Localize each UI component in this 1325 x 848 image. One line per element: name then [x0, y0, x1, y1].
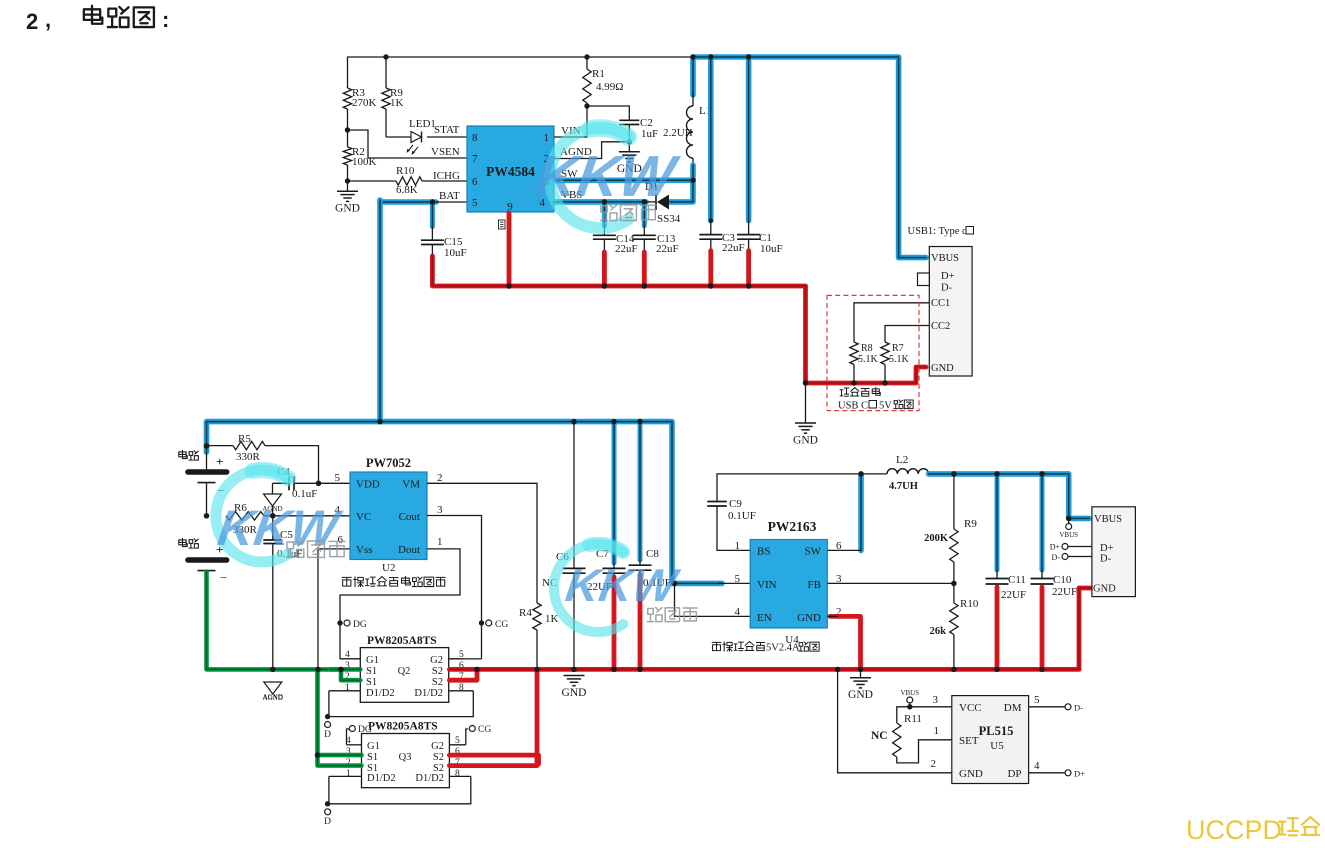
wire green into Q3 S1 pin3 — [318, 753, 362, 758]
node red C11 junction — [994, 667, 999, 672]
svg-text:GND: GND — [959, 768, 983, 780]
svg-text:VBUS: VBUS — [900, 689, 919, 697]
svg-text:SW: SW — [805, 546, 822, 558]
pin label EP glyph — [499, 220, 506, 229]
wire pin9 red drop — [507, 213, 512, 286]
ground AGND under C5 — [264, 682, 282, 694]
node bus R9 junction — [951, 471, 956, 476]
svg-text:5V2.4A: 5V2.4A — [766, 643, 800, 654]
node VC C5 junction — [270, 513, 275, 518]
capacitor C11 — [995, 474, 1000, 570]
svg-text:D+: D+ — [1074, 769, 1085, 779]
svg-text:D1/D2: D1/D2 — [366, 688, 395, 699]
LED LED1 — [411, 132, 422, 143]
svg-text:EN: EN — [757, 612, 772, 624]
svg-text:8: 8 — [472, 132, 478, 144]
svg-text:DM: DM — [1004, 702, 1022, 714]
svg-text:KKW: KKW — [214, 500, 345, 556]
node red R8 junction — [851, 380, 856, 385]
svg-text:1: 1 — [437, 536, 443, 548]
node red R7 junction — [882, 380, 887, 385]
wire green battery negative — [207, 572, 361, 681]
resistor R9 — [383, 54, 388, 59]
node red C10 junction — [1039, 667, 1044, 672]
svg-text:CG: CG — [478, 725, 491, 735]
node red C6 junction — [571, 667, 576, 672]
capacitor C1 — [746, 57, 752, 221]
capacitor C9 — [717, 506, 750, 550]
wire U4 GND red — [830, 616, 861, 669]
ground GND under USB1 — [805, 383, 807, 423]
label two-cell protection circuit — [342, 577, 351, 586]
ground GND under R2 — [347, 181, 349, 191]
battery BT2 — [179, 538, 187, 546]
svg-text:26k: 26k — [930, 626, 947, 637]
svg-text:10uF: 10uF — [444, 247, 467, 259]
svg-text:1: 1 — [544, 132, 550, 144]
svg-text:D+: D+ — [1050, 543, 1061, 552]
svg-text:VCC: VCC — [959, 702, 982, 714]
svg-text:Vss: Vss — [356, 544, 373, 556]
ground AGND near C4 — [272, 483, 274, 494]
svg-text:PW8205A8TS: PW8205A8TS — [367, 635, 437, 647]
node red U4 GND junction — [858, 667, 863, 672]
svg-text:D+: D+ — [941, 271, 955, 282]
node R3 R2 junction — [345, 127, 350, 132]
svg-text:GND: GND — [562, 687, 587, 699]
pin stubs Q3 — [347, 744, 362, 746]
transistor Q2 PW8205A8TS body — [360, 648, 448, 703]
wire VIN blue into U4 — [718, 582, 750, 584]
wire STAT row — [386, 136, 411, 138]
node VDD C4 junction — [316, 481, 321, 486]
svg-text:VBUS: VBUS — [1059, 531, 1078, 539]
wire green into S1 pin3 — [330, 667, 360, 672]
svg-text:2: 2 — [26, 9, 38, 34]
node DG Q3 — [347, 729, 350, 745]
node R2 ICHG junction — [345, 178, 350, 183]
svg-text:STAT: STAT — [434, 124, 460, 136]
transistor Q3 PW8205A8TS body — [362, 734, 450, 788]
wire BAT battery drop blue — [377, 200, 383, 422]
svg-text:R10: R10 — [960, 598, 979, 610]
svg-text:D: D — [324, 817, 331, 827]
watermark swirl arc — [554, 544, 623, 632]
resistor R10 26k — [953, 583, 955, 603]
svg-text:4.99Ω: 4.99Ω — [596, 81, 623, 93]
svg-text:D1/D2: D1/D2 — [414, 688, 443, 699]
node VBUS PL515 — [907, 697, 913, 703]
svg-text:Cout: Cout — [399, 511, 420, 523]
capacitor C8 — [638, 422, 643, 560]
watermark gray text — [601, 205, 617, 221]
resistor R5 — [207, 445, 234, 447]
svg-text:3: 3 — [933, 694, 939, 706]
svg-text:22UF: 22UF — [1001, 589, 1026, 601]
wire VDD link — [319, 482, 351, 484]
svg-text:L2: L2 — [896, 454, 908, 466]
node VIN EN junction — [672, 581, 677, 586]
resistor R4 — [533, 603, 541, 630]
svg-text:2.2UH: 2.2UH — [663, 127, 693, 139]
svg-text:BS: BS — [757, 546, 770, 558]
label buck circuit caption — [712, 642, 721, 650]
svg-text:22uF: 22uF — [656, 243, 679, 255]
svg-text:G2: G2 — [430, 655, 443, 666]
node green jog junction — [338, 667, 343, 672]
svg-text:6.8K: 6.8K — [396, 184, 418, 196]
svg-text:R9: R9 — [964, 518, 977, 530]
wire SW row blue — [554, 178, 693, 184]
op-amp U2 PW7052 chip body — [350, 472, 427, 560]
svg-text:NC: NC — [871, 730, 888, 742]
svg-text:−: − — [220, 570, 227, 585]
svg-text:3: 3 — [437, 504, 443, 516]
svg-text:GND: GND — [1093, 584, 1116, 595]
node DG Q2 — [337, 620, 342, 625]
svg-text:C8: C8 — [646, 548, 659, 560]
resistor R2 — [347, 130, 349, 147]
svg-text:4: 4 — [735, 606, 741, 618]
capacitor C6 — [573, 422, 575, 569]
capacitor C2 — [587, 106, 629, 120]
svg-text:CG: CG — [495, 620, 508, 630]
svg-text:R4: R4 — [519, 607, 532, 619]
wire CC1 link — [854, 303, 929, 342]
node Q3 drain D — [325, 801, 330, 806]
svg-text:ICHG: ICHG — [433, 170, 460, 182]
wire main red bus upper — [432, 256, 926, 383]
resistor R7 — [881, 342, 889, 365]
inductor L1 — [690, 57, 696, 95]
svg-text:330R: 330R — [236, 451, 261, 463]
svg-text:KKW: KKW — [563, 559, 683, 611]
svg-text:6: 6 — [338, 534, 344, 546]
battery BT1 — [179, 450, 187, 458]
op-amp U5 PL515 body — [952, 696, 1029, 784]
wire 5V output bus blue — [929, 474, 1089, 519]
node bus VBUS corner — [1066, 516, 1071, 521]
node red bus C14 junction — [602, 283, 607, 288]
node green C5 junction — [270, 667, 275, 672]
svg-text:D1/D2: D1/D2 — [415, 773, 444, 784]
svg-text:VBUS: VBUS — [1094, 514, 1122, 525]
svg-text:G1: G1 — [367, 741, 380, 752]
svg-text:1K: 1K — [545, 613, 559, 625]
svg-text:U5: U5 — [990, 740, 1004, 752]
svg-text:GND: GND — [931, 363, 954, 374]
wire VCC link — [910, 706, 952, 708]
wire red drop to Q3 — [449, 669, 537, 765]
node R1 VIN junction — [584, 103, 589, 108]
svg-text:PW2163: PW2163 — [768, 519, 817, 534]
svg-text:S1: S1 — [366, 677, 377, 688]
node red jog junction — [474, 667, 479, 672]
node green Q3 junction — [315, 752, 320, 757]
resistor R11 — [897, 707, 910, 723]
svg-text:22uF: 22uF — [722, 242, 745, 254]
svg-text:0.1uF: 0.1uF — [292, 488, 317, 500]
capacitor C5 — [272, 516, 274, 540]
connector USB1 shell tab — [918, 273, 930, 286]
dashed communication resistor box — [827, 295, 919, 410]
capacitor C14 — [602, 202, 607, 226]
node top bus L1 junction — [690, 54, 695, 59]
svg-text:GND: GND — [797, 612, 821, 624]
wire Q3 drain loop — [329, 776, 471, 803]
wire FB link — [827, 582, 954, 584]
svg-text:SS34: SS34 — [657, 213, 681, 225]
resistor R10 — [348, 180, 397, 182]
svg-text:GND: GND — [335, 203, 360, 215]
wire Cout to CG — [427, 516, 482, 624]
node VBS C13 junction — [642, 199, 647, 204]
svg-text:D+: D+ — [1100, 543, 1114, 554]
svg-text:200K: 200K — [924, 533, 949, 544]
node CG Q2 — [479, 620, 484, 625]
svg-text::: : — [162, 7, 169, 32]
wire BAT row blue — [380, 199, 436, 205]
svg-text:5: 5 — [735, 573, 741, 585]
svg-text:DP: DP — [1007, 768, 1021, 780]
svg-text:KKW: KKW — [531, 144, 684, 209]
wire red Q3 pin6 — [449, 755, 538, 764]
node green Vss junction — [315, 667, 320, 672]
svg-text:2: 2 — [931, 758, 937, 770]
node red PL515 junction — [835, 667, 840, 672]
watermark swirl arc — [216, 470, 288, 562]
svg-text:LED1: LED1 — [409, 118, 436, 130]
svg-text:5: 5 — [472, 197, 478, 209]
svg-text:S2: S2 — [433, 752, 444, 763]
wire C3 red stub — [708, 251, 713, 286]
node red bus C3 junction — [708, 283, 713, 288]
wire AGND link — [554, 142, 629, 159]
node C2 ground junction — [627, 139, 632, 144]
node bus C11 junction — [994, 471, 999, 476]
watermark gray text — [647, 607, 662, 621]
node overlay dots on buses — [506, 283, 511, 288]
svg-text:S1: S1 — [366, 666, 377, 677]
svg-text:Q3: Q3 — [399, 752, 412, 763]
resistor R9 200K — [953, 474, 955, 529]
svg-text:1: 1 — [345, 683, 350, 693]
wire top rail black — [348, 57, 694, 88]
pin stubs Q2 — [340, 658, 360, 660]
capacitor C3 — [708, 57, 714, 221]
svg-text:PW4584: PW4584 — [486, 164, 535, 179]
svg-text:G2: G2 — [431, 741, 444, 752]
node bus C10 junction — [1039, 471, 1044, 476]
wire C14 red stub — [602, 252, 607, 286]
node bus C6 junction — [571, 419, 576, 424]
svg-text:270K: 270K — [352, 97, 377, 109]
svg-text:U2: U2 — [382, 562, 395, 574]
inductor L2 — [861, 473, 887, 475]
svg-text:GND: GND — [793, 435, 818, 447]
wire C13 red stub — [642, 252, 647, 286]
op-amp U1 PW4584 chip body — [467, 126, 554, 212]
connector USB1 body — [929, 247, 972, 377]
svg-text:PW7052: PW7052 — [366, 456, 411, 470]
svg-text:5.1K: 5.1K — [858, 354, 879, 365]
wire top bus blue to USB1 VBUS — [693, 57, 926, 258]
resistor R6 — [226, 512, 264, 520]
node Q2 drain D — [325, 714, 330, 719]
op-amp U4 PW2163 chip body — [750, 540, 827, 629]
wire Dout to DG — [340, 549, 460, 623]
node BAT C15 junction — [430, 199, 435, 204]
svg-text:C10: C10 — [1053, 574, 1072, 586]
resistor R3 — [343, 88, 351, 109]
wire CC2 link — [885, 326, 929, 343]
svg-text:VC: VC — [356, 511, 371, 523]
node bus BAT junction — [377, 419, 382, 424]
svg-text:FB: FB — [808, 579, 821, 591]
watermark swirl arc — [550, 128, 629, 228]
svg-text:10uF: 10uF — [760, 243, 783, 255]
svg-text:5: 5 — [335, 472, 341, 484]
svg-text:C11: C11 — [1008, 574, 1026, 586]
svg-text:BAT: BAT — [439, 190, 460, 202]
svg-text:R10: R10 — [396, 165, 415, 177]
node red bus pin9 junction — [506, 283, 511, 288]
wire L1 to D1 blue — [670, 165, 693, 202]
svg-text:DG: DG — [358, 725, 372, 735]
diode D1 — [657, 195, 669, 210]
svg-text:7: 7 — [472, 153, 478, 165]
ground GND under C2 — [628, 142, 630, 152]
node bus C7 junction — [611, 419, 616, 424]
svg-text:VBUS: VBUS — [931, 253, 959, 264]
svg-text:1K: 1K — [390, 97, 404, 109]
svg-text:1uF: 1uF — [641, 128, 658, 140]
wire SW riser blue — [858, 474, 864, 551]
capacitor C10 — [1040, 474, 1045, 570]
svg-text:+: + — [216, 454, 223, 469]
svg-text:R11: R11 — [904, 713, 922, 725]
resistor R8 — [850, 342, 858, 365]
svg-text:PL515: PL515 — [979, 724, 1014, 738]
svg-text:,: , — [45, 7, 51, 32]
node red C7 junction — [611, 667, 616, 672]
node red bus C13 junction — [642, 283, 647, 288]
wire Q2 drain loop — [329, 691, 473, 717]
svg-text:5V: 5V — [879, 401, 892, 412]
node SW L1 D1 junction — [690, 178, 695, 183]
svg-text:DG: DG — [353, 620, 367, 630]
svg-text:D-: D- — [1100, 554, 1112, 565]
wire C1 red stub — [746, 251, 751, 286]
svg-text:PW8205A8TS: PW8205A8TS — [368, 721, 438, 733]
wire red Q2 pin7 jog — [449, 669, 477, 680]
svg-text:6: 6 — [472, 176, 478, 188]
svg-text:1: 1 — [934, 725, 940, 737]
svg-text:4: 4 — [1034, 760, 1040, 772]
svg-text:S1: S1 — [367, 752, 378, 763]
node VBS C14 junction — [602, 199, 607, 204]
node SW L2 junction — [858, 471, 863, 476]
svg-text:USB C: USB C — [838, 401, 868, 412]
svg-text:SET: SET — [959, 735, 979, 747]
wire VBS row blue — [554, 199, 646, 205]
node red GND junction — [803, 380, 808, 385]
svg-text:R8: R8 — [861, 343, 873, 354]
svg-text:Q2: Q2 — [398, 666, 411, 677]
node top bus C3 junction — [708, 54, 713, 59]
svg-text:0.1UF: 0.1UF — [728, 510, 756, 522]
svg-text:S2: S2 — [432, 677, 443, 688]
watermark gray text — [287, 541, 304, 558]
svg-text:CC1: CC1 — [931, 298, 950, 309]
svg-text:4.7UH: 4.7UH — [889, 481, 918, 492]
svg-text:USB1: Type c: USB1: Type c — [908, 226, 967, 237]
svg-text:22uF: 22uF — [615, 243, 638, 255]
node battery mid junction — [204, 513, 209, 518]
ground GND under C6 — [564, 675, 585, 677]
node red C8 junction — [637, 667, 642, 672]
connector USB2 body — [1092, 507, 1136, 597]
svg-text:UCCPD: UCCPD — [1186, 815, 1282, 845]
resistor R1 — [584, 54, 589, 59]
svg-text:1: 1 — [346, 769, 351, 779]
wire VSEN link — [348, 130, 468, 158]
svg-text:VM: VM — [402, 479, 420, 491]
svg-text:D-: D- — [941, 283, 953, 294]
node top bus C1 junction — [746, 54, 751, 59]
ground GND under U4 — [860, 669, 862, 677]
wire DP output — [1029, 772, 1065, 774]
svg-text:VSEN: VSEN — [431, 146, 460, 158]
node bus C8 junction — [637, 419, 642, 424]
svg-text:5: 5 — [1034, 694, 1040, 706]
node CG Q3 — [466, 729, 468, 745]
svg-text:R1: R1 — [592, 68, 605, 80]
node VBUS stub — [1068, 518, 1070, 523]
svg-text:5.1K: 5.1K — [889, 354, 910, 365]
capacitor C13 — [642, 202, 647, 226]
svg-text:D-: D- — [1052, 553, 1061, 562]
svg-text:C9: C9 — [729, 498, 742, 510]
node red R4 junction — [534, 667, 539, 672]
wire Vss link — [318, 549, 350, 670]
svg-text:R5: R5 — [238, 433, 251, 445]
svg-text:8: 8 — [455, 769, 460, 779]
capacitor C7 — [612, 422, 617, 563]
svg-text:D1/D2: D1/D2 — [367, 773, 396, 784]
wire DM output — [1029, 706, 1065, 708]
svg-text:VIN: VIN — [757, 579, 777, 591]
svg-text:2: 2 — [437, 472, 443, 484]
node red bus C1 junction — [746, 283, 751, 288]
capacitor C4 — [294, 482, 319, 484]
node FB junction — [951, 581, 956, 586]
svg-text:R7: R7 — [892, 343, 904, 354]
wire VIN link — [554, 106, 587, 137]
svg-text:Dout: Dout — [398, 544, 420, 556]
svg-text:1: 1 — [735, 540, 741, 552]
svg-text:D: D — [324, 730, 331, 740]
wire green drop to Q3 — [318, 669, 362, 765]
svg-text:S2: S2 — [432, 666, 443, 677]
wire battery top bus blue — [207, 422, 723, 584]
svg-text:VDD: VDD — [356, 479, 380, 491]
wire red main bus lower — [449, 588, 1092, 669]
svg-text:CC2: CC2 — [931, 321, 950, 332]
capacitor C15 — [430, 202, 435, 227]
svg-text:GND: GND — [848, 689, 873, 701]
wire EN link — [675, 583, 751, 616]
